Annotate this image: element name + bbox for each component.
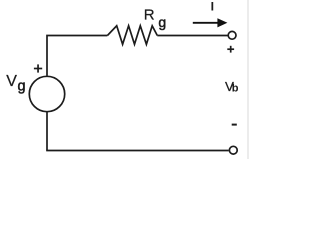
label V_b: [225, 79, 239, 95]
terminal node + (top right, open circle): [228, 31, 236, 39]
svg-text:b: b: [232, 83, 239, 95]
label V_g: [6, 73, 25, 95]
voltage source Vg (circle): [29, 76, 64, 111]
svg-text:I: I: [211, 0, 214, 14]
frame edge (faint right border): [247, 0, 249, 159]
resistor Rg: [107, 26, 157, 45]
terminal node - (bottom right, open circle): [229, 146, 237, 154]
wire bottom rail: [46, 150, 229, 152]
svg-text:R: R: [144, 6, 155, 23]
label - (bottom right terminal): [232, 124, 237, 126]
label I: [211, 0, 214, 14]
label + (top right terminal): [227, 46, 234, 53]
wire top-left (left branch up and across to resistor): [47, 36, 107, 76]
wire source bottom to bottom rail: [46, 112, 48, 151]
svg-text:g: g: [18, 79, 26, 95]
label + (source polarity): [34, 64, 42, 72]
svg-text:g: g: [158, 14, 166, 30]
svg-text:V: V: [6, 73, 17, 90]
label R_g: [144, 6, 166, 30]
current arrow I: [193, 18, 228, 27]
wire resistor to top terminal: [157, 35, 227, 37]
